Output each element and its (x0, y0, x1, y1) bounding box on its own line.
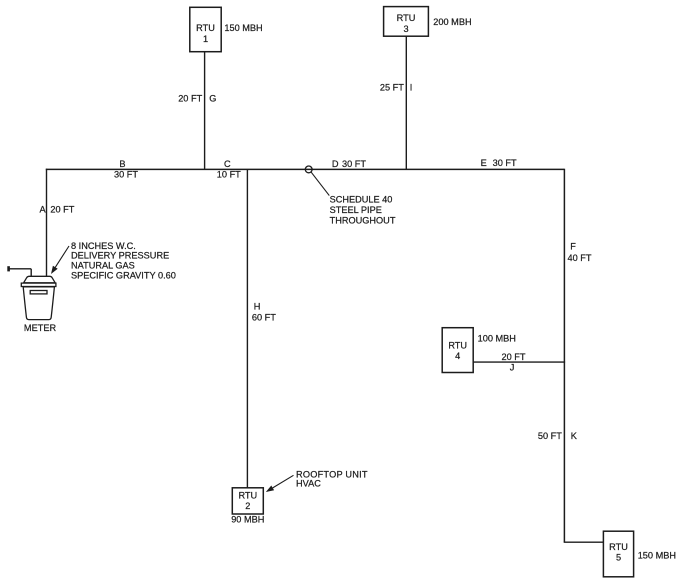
svg-text:20 FT: 20 FT (50, 204, 74, 214)
svg-text:150 MBH: 150 MBH (638, 550, 676, 560)
svg-text:90 MBH: 90 MBH (231, 515, 264, 525)
leader arrow from note to meter (51, 246, 69, 274)
svg-text:20 FT: 20 FT (178, 94, 202, 104)
leader line from node to SCHEDULE 40 note (311, 172, 329, 196)
svg-text:50 FT: 50 FT (538, 431, 562, 441)
RTU 2 box (232, 488, 263, 514)
svg-text:30 FT: 30 FT (342, 159, 366, 169)
svg-text:2: 2 (245, 501, 250, 511)
wire main horizontal header B-C-D-E (46, 168, 565, 170)
svg-text:SPECIFIC GRAVITY 0.60: SPECIFIC GRAVITY 0.60 (71, 271, 176, 281)
RTU 3 box (384, 7, 429, 37)
wire segment A vertical to meter (46, 169, 48, 277)
svg-text:D: D (332, 159, 339, 169)
wire segment I vertical to RTU 3 (405, 36, 407, 169)
svg-text:5: 5 (616, 552, 621, 562)
svg-text:1: 1 (203, 34, 208, 44)
svg-text:HVAC: HVAC (296, 479, 321, 489)
wire bottom horizontal to RTU 5 (564, 541, 604, 543)
svg-text:RTU: RTU (609, 542, 628, 552)
svg-text:30 FT: 30 FT (114, 169, 138, 179)
wire segment H vertical to RTU 2 (246, 169, 248, 487)
svg-text:RTU: RTU (196, 23, 215, 33)
leader arrow from note to RTU 2 (266, 475, 294, 492)
svg-text:C: C (224, 159, 231, 169)
svg-text:10 FT: 10 FT (217, 169, 241, 179)
svg-text:E: E (481, 158, 487, 168)
svg-text:8 INCHES W.C.: 8 INCHES W.C. (71, 241, 136, 251)
wire segment F-K vertical right riser (563, 169, 565, 543)
svg-text:I: I (410, 83, 413, 93)
svg-text:200 MBH: 200 MBH (433, 17, 471, 27)
meter dome lid (24, 276, 56, 283)
meter collar band (21, 283, 56, 286)
svg-text:30 FT: 30 FT (493, 158, 517, 168)
svg-text:A: A (40, 204, 47, 214)
svg-text:4: 4 (455, 351, 460, 361)
svg-text:METER: METER (24, 323, 57, 333)
RTU 5 box (603, 531, 633, 577)
svg-text:DELIVERY PRESSURE: DELIVERY PRESSURE (71, 251, 169, 261)
svg-text:K: K (571, 431, 578, 441)
svg-text:150 MBH: 150 MBH (224, 23, 262, 33)
meter window (30, 291, 47, 294)
meter symbol (21, 276, 56, 319)
meter body (23, 287, 54, 320)
svg-text:THROUGHOUT: THROUGHOUT (330, 215, 396, 225)
svg-text:SCHEDULE 40: SCHEDULE 40 (330, 194, 393, 204)
svg-text:100 MBH: 100 MBH (478, 333, 516, 343)
svg-text:J: J (510, 362, 515, 372)
RTU 4 box (442, 328, 473, 373)
svg-text:G: G (209, 94, 216, 104)
RTU 1 box (190, 7, 221, 51)
svg-text:20 FT: 20 FT (502, 352, 526, 362)
svg-text:25 FT: 25 FT (380, 83, 404, 93)
node circle on segment D (305, 166, 312, 173)
svg-text:40 FT: 40 FT (568, 253, 592, 263)
svg-text:RTU: RTU (448, 341, 467, 351)
svg-text:STEEL PIPE: STEEL PIPE (330, 205, 382, 215)
svg-text:B: B (119, 159, 125, 169)
meter inlet stub with valve tick (9, 266, 32, 276)
svg-text:RTU: RTU (397, 13, 416, 23)
svg-text:RTU: RTU (238, 491, 257, 501)
svg-text:3: 3 (403, 24, 408, 34)
svg-text:60 FT: 60 FT (252, 312, 276, 322)
svg-text:NATURAL GAS: NATURAL GAS (71, 261, 135, 271)
wire segment G vertical to RTU 1 (204, 52, 206, 170)
svg-text:H: H (254, 301, 261, 311)
wire segment J horizontal to RTU 4 (473, 361, 565, 363)
svg-text:F: F (570, 242, 576, 252)
